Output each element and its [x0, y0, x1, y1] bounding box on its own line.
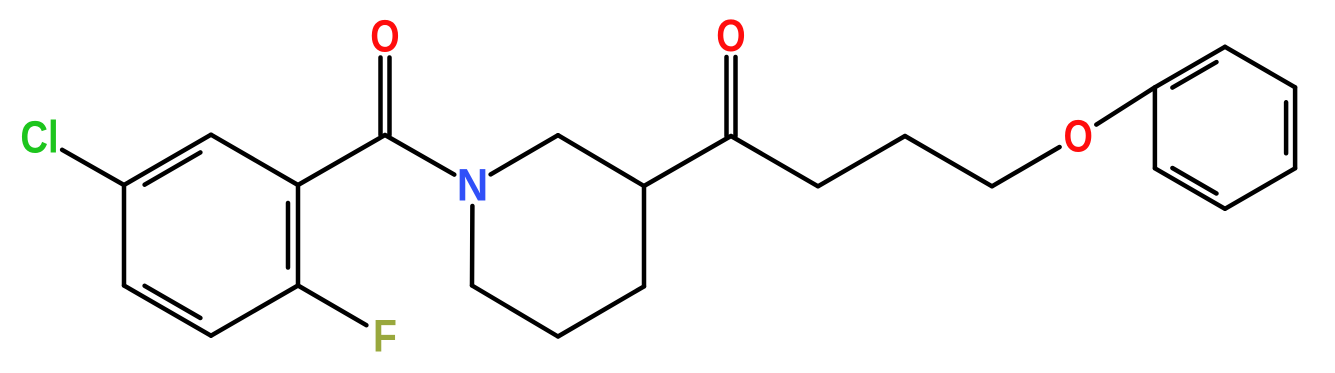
- inner double C3=C4: [145, 286, 201, 318]
- amide bond C7-N: [385, 135, 454, 175]
- bond Ck-CH2: [731, 136, 818, 186]
- double bond Ck=O2: [733, 57, 738, 136]
- benzene edge C2-C3: [211, 286, 298, 336]
- svg-text:O: O: [1063, 111, 1092, 162]
- double bond C7=O1: [378, 58, 383, 136]
- svg-text:Cl: Cl: [20, 112, 58, 163]
- phenyl edge LR-BOT: [1225, 168, 1295, 209]
- benzene edge C3-C4: [124, 286, 211, 336]
- inner double C5=C6: [145, 152, 201, 184]
- svg-text:N: N: [457, 161, 489, 211]
- bond R4-R3: [642, 186, 647, 286]
- phenyl edge UL-TOP: [1155, 47, 1225, 88]
- svg-text:O: O: [716, 10, 745, 61]
- benzene edge C6-C1: [211, 135, 298, 185]
- double bond C7=O1: [387, 58, 392, 136]
- bond C1-C7: [298, 135, 385, 185]
- benzene edge C4-C5: [122, 185, 127, 286]
- bond CH2-O3: [992, 147, 1060, 186]
- benzene edge C5-C6: [124, 135, 211, 185]
- bond O3-phenyl: [1096, 87, 1155, 124]
- bond CH2-CH2b: [905, 136, 992, 186]
- svg-text:F: F: [373, 311, 397, 361]
- phenyl edge UR-LR: [1293, 87, 1298, 168]
- bond CH2-CH2: [818, 136, 905, 186]
- bond R6-R5: [472, 286, 558, 337]
- bond C2-F: [298, 286, 366, 326]
- inner double UL=TOP: [1172, 62, 1216, 88]
- bond Cl-C5: [62, 150, 124, 185]
- inner double BOT=LL: [1172, 168, 1216, 194]
- phenyl edge LL-UL: [1153, 87, 1158, 168]
- bond R3-Ck: [644, 136, 731, 186]
- bond N-R2: [491, 135, 558, 174]
- bond N-R6: [470, 206, 475, 286]
- inner double UR=LR: [1284, 102, 1289, 153]
- bond R5-R4: [558, 286, 644, 336]
- benzene edge C1-C2: [296, 185, 301, 286]
- inner double C1=C2: [286, 203, 291, 268]
- phenyl edge TOP-UR: [1225, 47, 1295, 88]
- bond R2-R3: [558, 135, 644, 186]
- svg-text:O: O: [370, 10, 399, 61]
- phenyl edge BOT-LL: [1155, 168, 1225, 209]
- double bond Ck=O2: [724, 57, 729, 136]
